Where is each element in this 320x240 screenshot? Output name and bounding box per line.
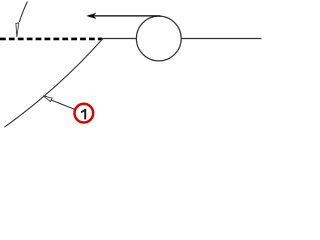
circle (roller) <box>136 16 181 61</box>
wire: thin line from dash end to circle left <box>102 38 136 40</box>
balloon leader arrowhead (slender, open) <box>43 96 52 102</box>
balloon circle 1 (red) <box>74 104 93 123</box>
wire: thin line from circle right <box>181 38 261 40</box>
arrowhead of tangent arrow <box>87 13 96 18</box>
tangent arrow line (points left) <box>88 15 161 17</box>
leader curve top-left <box>19 2 27 22</box>
balloon leader line <box>51 100 75 109</box>
diagonal line (slight large-radius arc) <box>4 39 102 128</box>
leader arrowhead (slender, open, pointing down to centerline) <box>16 23 19 37</box>
centerline (dashed) <box>0 38 102 41</box>
balloon text 1 (digit drawn as path) <box>81 109 86 120</box>
